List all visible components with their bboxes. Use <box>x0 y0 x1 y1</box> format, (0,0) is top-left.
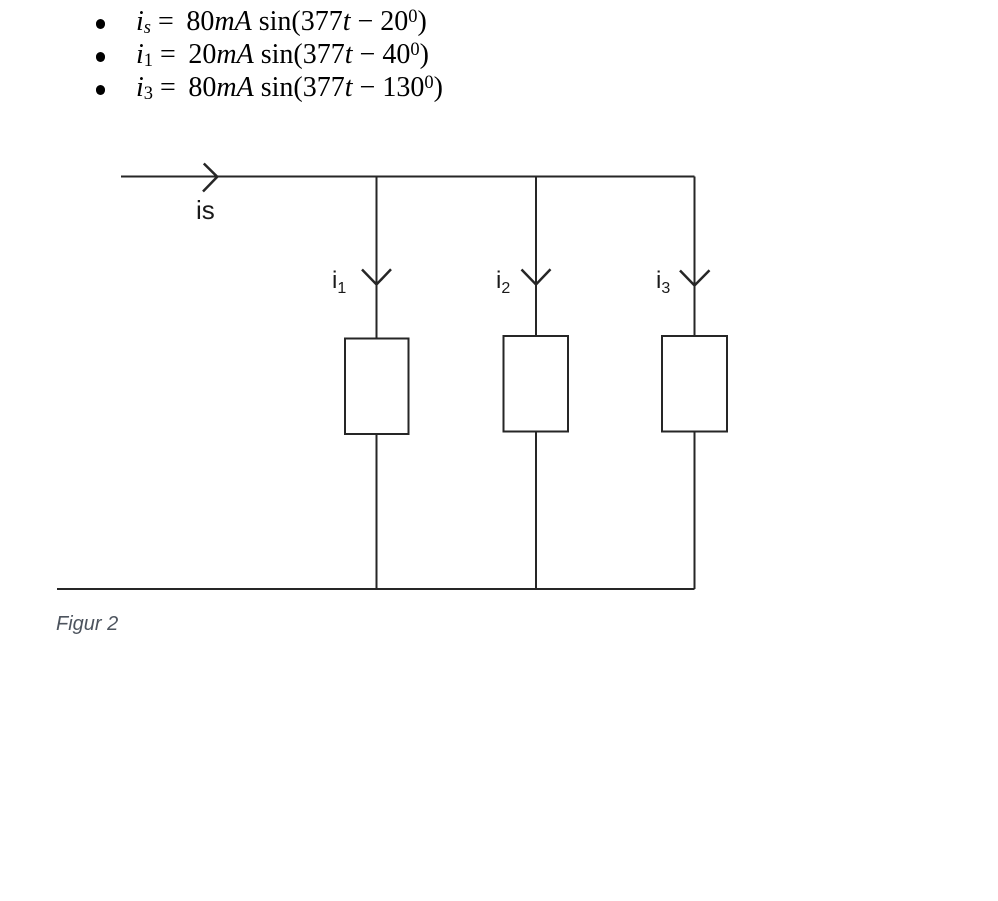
wire: branch 2 vertical lower segment <box>535 432 537 590</box>
arrow: branch 2 current direction <box>522 269 551 284</box>
svg-text:is: is <box>196 195 215 225</box>
svg-text:i2: i2 <box>496 267 510 297</box>
wire: branch 1 vertical upper segment <box>376 177 378 339</box>
component box Z2 (branch 2 load) <box>504 336 569 432</box>
component box Z1 (branch 1 load) <box>345 339 409 435</box>
svg-text:i3: i3 <box>656 267 670 297</box>
svg-text:i1: i1 <box>332 267 346 297</box>
wire: branch 3 vertical lower segment <box>694 432 696 590</box>
equation line 3: i3 = 80mA sin(377t - 130^0) <box>96 85 106 95</box>
arrow: branch 1 current direction <box>362 269 391 284</box>
wire: branch 3 vertical upper segment <box>694 177 696 337</box>
arrow: source current direction on top wire <box>203 164 217 192</box>
equation line 2: i1 = 20mA sin(377t - 40^0) <box>96 52 106 62</box>
equation line 1: is = 80mA sin(377t - 20^0) <box>96 19 106 29</box>
wire: branch 2 vertical upper segment <box>535 177 537 337</box>
wire: bottom return bus <box>57 588 695 590</box>
caption Figur 2 <box>56 613 118 636</box>
wire: branch 1 vertical lower segment <box>376 434 378 589</box>
component box Z3 (branch 3 load) <box>662 336 727 432</box>
arrow: branch 3 current direction <box>680 270 710 285</box>
wire: top horizontal bus <box>121 176 695 178</box>
